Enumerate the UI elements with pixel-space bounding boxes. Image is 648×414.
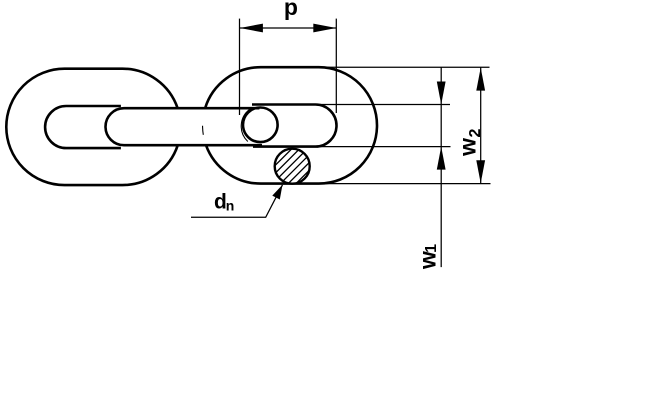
w1 bottom extension line (hole bottom)	[320, 146, 451, 148]
p dim arrow left	[240, 24, 263, 33]
w2 bottom extension line	[317, 183, 491, 185]
svg-text:p: p	[284, 0, 298, 20]
right link outer ring (gap where middle bar crosses its left cap)	[205, 67, 377, 183]
dn leader line	[191, 185, 283, 218]
dn leader arrowhead	[272, 185, 282, 200]
w1 top extension line (hole top)	[320, 104, 450, 106]
p dim arrow right	[313, 24, 336, 33]
w1 arrow up (below hole bottom line)	[437, 147, 446, 170]
middle link bar right end loop (full circle)	[243, 108, 278, 143]
left link outer ring (gap where middle bar crosses its right cap)	[6, 69, 177, 185]
w2 arrow top	[476, 68, 485, 91]
svg-text:2: 2	[467, 129, 484, 138]
w2 top extension line	[320, 66, 490, 68]
w1 arrow down (above hole top line)	[437, 82, 446, 105]
right link inner hole left cap (thin, behind bar)	[241, 109, 249, 141]
svg-text:1: 1	[423, 244, 440, 253]
wire cross-section hatched circle	[275, 149, 310, 184]
p dimension line	[240, 27, 336, 29]
right link inner hole thick part (top, right cap, bottom)	[252, 105, 337, 147]
left link inner hole (right cap hidden behind bar)	[45, 106, 121, 148]
svg-text:n: n	[226, 197, 235, 213]
label w2 (rotated)	[455, 129, 485, 157]
label w1 (rotated)	[414, 244, 440, 270]
w2 dimension line	[480, 67, 482, 183]
svg-text:w: w	[455, 138, 481, 157]
middle link bar top edge	[124, 107, 259, 110]
right link outer left cap hidden-line dash	[202, 126, 205, 135]
p right extension line	[335, 19, 337, 113]
hatching of cross-section	[258, 130, 326, 198]
p left extension line	[239, 19, 241, 115]
w1 dimension line	[440, 67, 442, 267]
middle link bar left end cap	[106, 108, 124, 145]
middle link bar bottom edge	[124, 144, 262, 147]
w2 arrow bottom	[476, 160, 485, 183]
